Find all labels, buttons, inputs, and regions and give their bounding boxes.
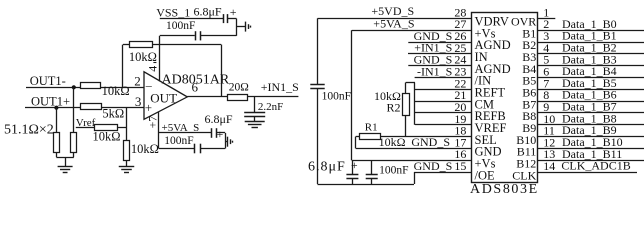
svg-text:100nF: 100nF bbox=[166, 20, 195, 32]
svg-text:6.8μF: 6.8μF bbox=[194, 4, 222, 18]
svg-text:R2: R2 bbox=[387, 100, 401, 114]
svg-text:6.8μF: 6.8μF bbox=[205, 112, 233, 126]
svg-text:R1: R1 bbox=[365, 121, 378, 133]
svg-text:CLK_ADC1B: CLK_ADC1B bbox=[561, 159, 630, 173]
svg-text:GND_S: GND_S bbox=[414, 159, 453, 173]
svg-text:+: + bbox=[217, 127, 224, 141]
svg-text:+: + bbox=[351, 158, 358, 172]
svg-text:2.2nF: 2.2nF bbox=[258, 101, 283, 113]
svg-text:20Ω: 20Ω bbox=[229, 81, 249, 93]
svg-text:15: 15 bbox=[454, 159, 466, 173]
svg-text:6.8μF: 6.8μF bbox=[308, 160, 346, 175]
svg-text:–: – bbox=[145, 78, 153, 92]
svg-text:3: 3 bbox=[135, 94, 142, 109]
svg-text:VSS_1: VSS_1 bbox=[156, 6, 190, 20]
svg-text:-IN1_S: -IN1_S bbox=[417, 64, 452, 78]
svg-text:OUT1+: OUT1+ bbox=[31, 94, 70, 108]
svg-text:6: 6 bbox=[192, 80, 199, 95]
svg-text:5kΩ: 5kΩ bbox=[102, 106, 124, 120]
svg-text:ADS803E: ADS803E bbox=[470, 182, 539, 197]
svg-text:+: + bbox=[145, 100, 152, 115]
svg-text:OUT1-: OUT1- bbox=[30, 74, 66, 88]
svg-text:10kΩ: 10kΩ bbox=[379, 135, 406, 149]
svg-text:10kΩ: 10kΩ bbox=[131, 142, 159, 156]
svg-text:+5VA_S: +5VA_S bbox=[162, 122, 200, 134]
svg-text:2: 2 bbox=[134, 74, 141, 89]
svg-text:/OE: /OE bbox=[475, 168, 496, 182]
svg-text:4: 4 bbox=[145, 66, 159, 72]
svg-text:+IN1_S: +IN1_S bbox=[261, 80, 299, 94]
svg-text:GND_S: GND_S bbox=[411, 135, 450, 149]
svg-text:10kΩ: 10kΩ bbox=[93, 130, 121, 144]
svg-text:51.1Ω×2: 51.1Ω×2 bbox=[4, 123, 54, 138]
svg-text:10kΩ: 10kΩ bbox=[102, 84, 130, 98]
svg-text:100nF: 100nF bbox=[379, 164, 408, 176]
svg-text:100nF: 100nF bbox=[164, 135, 193, 147]
svg-text:CLK: CLK bbox=[512, 168, 536, 182]
svg-text:+: + bbox=[230, 5, 237, 19]
svg-text:14: 14 bbox=[543, 159, 555, 173]
svg-text:100nF: 100nF bbox=[322, 91, 351, 103]
svg-text:OUT: OUT bbox=[150, 90, 177, 105]
svg-text:10kΩ: 10kΩ bbox=[129, 50, 157, 64]
svg-text:+5VA_S: +5VA_S bbox=[373, 17, 414, 31]
svg-text:+7: +7 bbox=[146, 116, 160, 129]
